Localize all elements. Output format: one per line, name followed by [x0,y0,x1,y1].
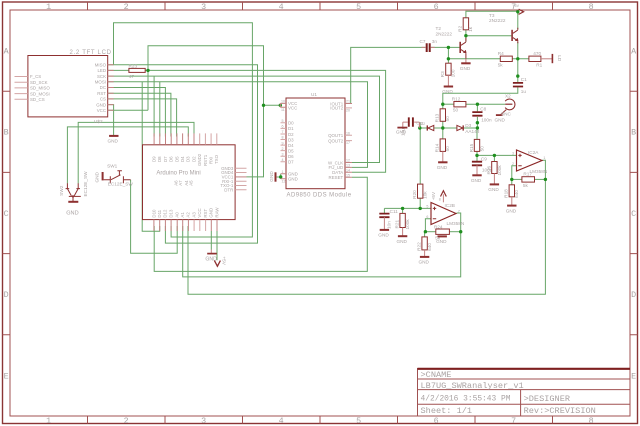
svg-text:D6: D6 [288,154,294,159]
svg-text:RST: RST [97,91,106,96]
transistor T2 2N2222 [460,38,466,59]
svg-text:B: B [4,128,9,138]
node R12/R13 [441,103,444,106]
Arduino inner pins A6 A7 A4 A5 [173,180,193,186]
ground under R14 [438,161,447,163]
svg-text:RST: RST [203,209,208,218]
ground under T2 emitter [465,59,467,63]
svg-text:2: 2 [512,162,514,166]
rotary encoder SW2 EC12E_SW [66,183,81,201]
resistor R23 47 [129,68,145,72]
resistor R24 5k [436,229,450,234]
svg-text:2: 2 [124,2,129,12]
svg-text:4: 4 [279,416,284,426]
svg-text:10u: 10u [400,128,405,136]
svg-text:6: 6 [434,416,439,426]
resistor R2 1k [463,18,468,30]
svg-text:GND: GND [378,233,389,238]
wire C9 top lead [476,155,478,161]
wire IC2A minus input [512,166,517,180]
node D2/D3/R13/R14 [441,126,444,129]
svg-text:E: E [631,371,636,381]
svg-text:R4: R4 [498,51,504,56]
svg-text:640: 640 [514,190,519,198]
wire IC2B minus input [425,219,431,232]
U1 right pins QOUT1 QOUT2 [345,135,352,140]
wire MISO to D12 [108,65,258,243]
svg-text:100k: 100k [497,165,502,176]
TFT [15,50,146,144]
svg-text:R23: R23 [129,63,138,68]
wire Arduino VCC1 to VCC rail [247,105,264,177]
svg-text:D4: D4 [288,143,294,148]
svg-text:R1: R1 [536,63,542,68]
wire R18 top [511,179,513,184]
svg-text:GND: GND [460,66,471,71]
svg-text:X2: X2 [505,93,511,98]
svg-text:10k: 10k [423,191,428,199]
diode D3 AA143 [457,125,463,130]
resistor R17 5k [522,177,535,182]
svg-text:D6: D6 [169,156,174,162]
svg-text:C9: C9 [481,156,487,161]
ground under encoder [68,201,78,203]
svg-text:3: 3 [201,2,206,12]
svg-text:E: E [4,371,9,381]
svg-text:GND: GND [488,187,499,192]
svg-text:MOSI: MOSI [95,80,106,85]
wire IC2B plus input line [384,207,431,209]
svg-text:1: 1 [543,156,545,160]
node U1 GND pins [279,175,282,178]
svg-text:4: 4 [279,2,284,12]
node IC2B minus/R22/R24 [424,230,427,233]
capacitor C11 10n [379,214,389,218]
svg-text:D2: D2 [191,156,196,162]
svg-text:EC12E_SW: EC12E_SW [83,171,88,197]
node C8 bottom [476,121,479,124]
svg-text:15: 15 [346,173,350,177]
svg-text:GND: GND [506,208,517,213]
svg-text:D2: D2 [421,122,426,126]
svg-text:D5: D5 [174,156,179,162]
wire encoder B to D2 [78,122,194,183]
svg-text:100n: 100n [481,118,492,123]
TITLEBLOCK [418,369,631,417]
ground below TFT [109,135,118,137]
svg-text:IC2A: IC2A [528,150,539,155]
wire U1 GND join [280,174,282,179]
wire MOSI branch to D11 [142,82,160,232]
wire CS to D5 [108,99,177,137]
svg-text:50: 50 [453,108,459,113]
svg-text:8: 8 [282,136,284,140]
svg-text:5k: 5k [498,63,504,68]
svg-text:Arduino Pro Mini: Arduino Pro Mini [156,170,200,176]
svg-text:GND2: GND2 [197,153,202,166]
svg-text:DC: DC [100,85,106,90]
wire R4 line [448,58,500,60]
wire diode line [420,127,427,129]
svg-text:13: 13 [346,164,350,168]
ground under R16 [490,183,499,185]
svg-text:10n: 10n [387,221,392,229]
svg-text:10: 10 [281,100,285,104]
svg-text:100k: 100k [405,219,410,230]
wire MOSI drop to D8 [159,82,161,137]
wire D10 to U1 RESET [154,177,367,271]
svg-text:A0: A0 [175,212,180,218]
svg-text:AD9850 DDS Module: AD9850 DDS Module [287,193,352,199]
svg-text:RST1: RST1 [203,154,208,166]
pad LD [551,54,553,63]
svg-text:GND: GND [437,165,448,170]
svg-text:A5: A5 [189,180,194,186]
ground under C11 [380,229,389,231]
wire encoder A to D3 [67,127,188,183]
svg-text:21: 21 [346,100,350,104]
wire MISO upper branch to D13 [114,23,253,237]
svg-text:D0: D0 [288,121,294,126]
svg-text:RESET: RESET [329,175,344,180]
svg-text:GND: GND [288,177,298,182]
svg-text:QOUT1: QOUT1 [328,133,344,138]
svg-text:VCC: VCC [197,208,202,217]
Arduino Pro Mini module [143,145,236,220]
wire R23 to VCC rail [148,46,264,111]
svg-text:MISO: MISO [95,62,107,67]
wire IC2B output [457,213,461,232]
wire A2 to IC2A out [188,179,545,294]
U1 right pins IOUT1 IOUT2 [345,103,352,105]
svg-text:4: 4 [282,158,284,162]
svg-text:D7: D7 [163,156,168,162]
svg-text:7: 7 [511,416,516,426]
svg-text:R16: R16 [486,166,491,175]
svg-text:GND: GND [96,102,106,107]
svg-text:SD_CS: SD_CS [30,97,45,102]
svg-text:GND: GND [209,208,214,218]
svg-text:R2: R2 [458,25,463,31]
resistor R22 640 [422,237,427,250]
title block texts [421,370,596,416]
capacitor C9 100n [472,162,482,166]
wire R15 leads [476,128,478,139]
svg-text:D10: D10 [151,209,156,218]
svg-text:F_CS: F_CS [30,74,41,79]
svg-text:20: 20 [346,109,350,113]
capacitor C1 1u [513,83,523,87]
svg-text:1k: 1k [468,26,473,32]
svg-text:5: 5 [356,416,361,426]
svg-text:R15: R15 [469,143,474,152]
wire R12 to X2 [466,103,506,105]
svg-text:2N2222: 2N2222 [436,31,453,36]
ground under IC2B [438,235,447,237]
svg-text:D9: D9 [152,156,157,162]
svg-text:SW1: SW1 [107,163,118,168]
svg-text:14: 14 [346,169,350,173]
wire T3 collector to +5V [517,11,519,29]
node R15/C9 [475,154,478,157]
frame row letters left [4,47,10,382]
wire SW1 to A0 [131,180,178,254]
wire C7 to T2 base [431,46,460,48]
wire TFT GND down [108,105,114,136]
wire R16 top lead [493,155,495,161]
wire IC2A output [542,160,545,179]
node T3 emitter / R4 / R1 [516,57,519,60]
wire R22 top lead [424,232,427,237]
ground under R22 [420,256,429,258]
node R12/X2/C8 [476,103,479,106]
ground under C9 [472,174,481,176]
svg-text:BNC: BNC [501,111,512,116]
svg-text:12: 12 [346,159,350,163]
svg-text:R24: R24 [434,224,443,229]
wire T3 emitter down to node [517,42,519,59]
ANALOG [378,4,562,265]
resistor R4 5k [500,56,512,61]
U1 GND symbol (rotated) [275,172,277,181]
wire R14 top [442,128,444,139]
node R17/R18 [510,178,513,181]
+5V arrow top (pointing right) [519,9,524,14]
title block outline [418,369,631,417]
svg-text:RAW: RAW [214,207,219,218]
svg-text:C7: C7 [420,39,426,44]
svg-text:LB7UG_SWRanalyser_v1: LB7UG_SWRanalyser_v1 [421,381,524,391]
svg-text:50: 50 [445,116,450,122]
svg-text:A3: A3 [191,212,196,218]
+5V arrow below RAW (pointing down) [214,261,220,267]
svg-text:Sheet: 1/1: Sheet: 1/1 [421,406,473,416]
svg-text:D8: D8 [157,156,162,162]
wire T2 collector to R2 and T3 base [465,30,467,42]
svg-text:DTR: DTR [224,188,233,193]
svg-text:EC12E_SW: EC12E_SW [108,181,134,186]
svg-text:6: 6 [282,125,284,129]
+5V arrow above IC2B (pointing up) [442,194,444,202]
wire U1 IOUT1 to C7 [351,47,426,103]
svg-text:2: 2 [124,416,129,426]
wire A1 to IC2B out [183,226,461,277]
capacitor C12 10u (polarized) [409,117,413,126]
svg-text:8: 8 [589,2,594,12]
node R21 top [401,207,404,210]
resistor R18 640 [509,185,514,197]
U1 left VCC pins [280,103,286,107]
svg-text:+5V: +5V [222,256,227,265]
wire C8 leads [476,104,478,111]
svg-text:R22: R22 [417,242,422,251]
svg-text:IOUT2: IOUT2 [330,106,343,111]
svg-text:Rev:>CREVISION: Rev:>CREVISION [524,406,596,416]
svg-text:SD_MOSI: SD_MOSI [30,91,50,96]
svg-text:QOUT2: QOUT2 [328,138,344,143]
svg-text:1: 1 [46,416,51,426]
svg-text:D7: D7 [288,160,294,165]
TFT LCD module U$2 [28,56,108,117]
U1 left data pins D0-D7 [281,123,287,162]
node VCC rail / U1 VCC [262,104,265,107]
wire R20 bottom lead [419,198,421,208]
svg-text:AA143: AA143 [465,129,479,134]
svg-text:GND: GND [495,118,506,123]
svg-text:U1: U1 [311,92,317,97]
AD9850 DDS module U1 [286,98,345,189]
node R16 top [493,154,496,157]
svg-text:D5: D5 [288,148,294,153]
svg-text:GND: GND [442,89,453,94]
node D3/R15 [476,126,479,129]
svg-text:1u: 1u [521,89,527,94]
svg-text:16: 16 [346,132,350,136]
wire R2 top to +5V [466,11,518,17]
svg-text:R12: R12 [452,96,461,101]
wire R24 ends [425,231,435,233]
svg-text:50: 50 [445,146,450,152]
svg-text:R14: R14 [435,143,440,152]
resistor R12 50 [454,102,466,107]
wire R23 to DATA bus [145,70,385,172]
svg-text:LED: LED [97,68,106,73]
svg-text:LD: LD [557,55,562,62]
capacitor C8 100n [472,112,482,116]
frame column numbers top [46,2,594,12]
svg-text:6: 6 [426,215,428,219]
node C12/D2/R20 [418,126,421,129]
svg-text:8: 8 [589,416,594,426]
svg-text:R21: R21 [395,220,400,229]
wire R17 ends [512,178,522,180]
wire Arduino GND pin down [210,231,212,250]
svg-text:R20: R20 [412,190,417,199]
frame row ticks right [630,91,638,335]
svg-text:2N2222: 2N2222 [489,18,506,23]
Arduino top pins D9 D8 D7 D6 D5 D4 D3 D2 GND2 RST1 RXI TXO [154,133,194,144]
svg-text:A2: A2 [186,212,191,218]
ground under R3 [444,86,453,88]
wire C11 top lead [383,208,385,213]
svg-text:5: 5 [282,119,284,123]
wire C1 bottom to R12/R13 node [443,87,518,109]
svg-text:LM358N: LM358N [530,169,548,174]
Arduino right pins GND3 GND4 VCC1 RXI-1 TXO-1 DTR [235,168,246,190]
svg-text:VCC: VCC [97,108,106,113]
Arduino bottom pins D10 D11 D12 D13 A0 A1 A2 A3 VCC RST GND RAW [154,220,217,231]
svg-text:GND: GND [269,171,274,182]
svg-text:50: 50 [479,146,484,152]
svg-text:D2: D2 [288,132,294,137]
svg-text:3: 3 [282,152,284,156]
svg-text:>DESIGNER: >DESIGNER [524,394,570,404]
resistor R1 470 [529,56,541,61]
op-amp IC2A LM358N [517,150,543,171]
resistor R3 100 [446,63,451,75]
svg-text:TXO: TXO [214,154,219,164]
svg-text:C8: C8 [480,107,486,112]
wire RAW to +5V [216,226,218,260]
wire RST to D6 [108,93,171,136]
node U1 VCC pins [279,104,282,107]
svg-text:D3: D3 [465,123,471,128]
svg-text:A7: A7 [178,180,183,186]
ground under Arduino [207,253,217,255]
svg-text:9: 9 [282,141,284,145]
frame row letters right [631,47,637,382]
node +5V top [516,10,519,13]
op-amp IC2B LM358N [431,203,456,225]
svg-text:3n: 3n [432,39,438,44]
node R23/LED [146,69,149,72]
svg-text:SD_SCK: SD_SCK [30,80,48,85]
wire node to C1 [517,59,519,83]
wire R4 to T3 emitter node [512,58,529,60]
svg-text:CS: CS [100,97,106,102]
svg-text:470: 470 [533,51,541,56]
resistor R20 10k [418,184,423,198]
resistor R14 50 [440,139,445,152]
svg-text:A1: A1 [180,212,185,218]
wire node to R12 [443,103,454,105]
svg-text:R13: R13 [435,113,440,122]
resistor R13 50 [440,109,445,122]
node C1 top [516,74,519,77]
svg-text:IC2B: IC2B [445,203,455,208]
svg-text:1: 1 [282,170,284,174]
svg-text:2.2 TFT LCD: 2.2 TFT LCD [70,50,112,56]
svg-text:5: 5 [356,2,361,12]
node IC2A feedback [544,178,547,181]
svg-text:8: 8 [439,197,441,201]
svg-text:GND: GND [108,139,119,144]
svg-text:6: 6 [434,2,439,12]
ENCODER [59,163,133,216]
svg-text:>CNAME: >CNAME [421,370,452,380]
svg-text:5: 5 [426,204,428,208]
svg-text:D12: D12 [163,209,168,218]
svg-text:47: 47 [129,74,135,79]
svg-text:C1: C1 [521,77,527,82]
svg-text:GND: GND [436,239,447,244]
svg-text:11: 11 [281,108,285,112]
svg-text:+5V: +5V [513,4,520,8]
U1 right pins W_CLK FU_UD DATA RESET [345,163,352,178]
wire base node down to R4 line [447,47,449,63]
svg-text:R18: R18 [504,189,509,198]
svg-text:R17: R17 [523,172,532,177]
svg-text:SW2: SW2 [59,185,64,196]
svg-text:+5V: +5V [431,191,436,200]
wire VCC rail to U1 VCC [264,104,281,106]
svg-text:12: 12 [282,180,286,184]
svg-text:3: 3 [512,151,514,155]
ARDUINO [143,133,247,266]
ground at SW1 left [102,172,104,180]
svg-text:7: 7 [458,210,460,214]
wire R13 bottom to diode line [442,121,444,128]
svg-text:D13: D13 [168,209,173,218]
frame column numbers bottom [46,416,594,426]
svg-text:4/2/2016 3:55:43 PM: 4/2/2016 3:55:43 PM [421,395,511,404]
svg-text:GND: GND [419,260,430,265]
svg-text:D: D [631,290,636,300]
wire TFT VCC [108,109,148,111]
svg-text:2: 2 [282,147,284,151]
svg-text:640: 640 [427,243,432,251]
frame row ticks left [3,91,11,335]
